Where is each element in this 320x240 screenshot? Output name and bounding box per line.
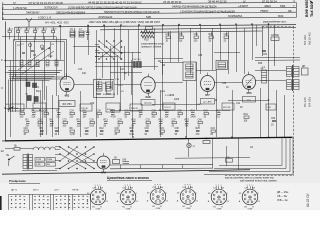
pilot lamp: [187, 143, 191, 147]
svg-text:ДВ Тн: ДВ Тн: [11, 189, 18, 191]
svg-text:громкости. объёмн.: громкости. объёмн.: [141, 47, 162, 49]
parts table grid: [2, 2, 296, 4]
svg-text:R25: R25: [196, 128, 201, 130]
svg-text:С13: С13: [78, 69, 83, 71]
detector filter: [216, 61, 228, 70]
tube V1 label box: [59, 101, 75, 107]
power transformer TR2: [287, 67, 292, 77]
pair wire ticks: [120, 164, 122, 168]
return wires to output stage: [219, 138, 282, 165]
IF section wiring: [96, 48, 98, 98]
svg-text:6ОИ62И64: 6ОИ62И64: [228, 14, 243, 18]
svg-text:С14 С15: С14 С15: [132, 59, 141, 61]
svg-text:R10: R10: [144, 39, 149, 42]
svg-text:44 45 28 22 26 30 35 40 42 47: 44 45 28 22 26 30 35 40 42 47 51 54 58 6…: [88, 1, 142, 5]
wire mains L: [5, 148, 14, 150]
trimmer box: [146, 27, 153, 30]
resistor R9: [141, 31, 154, 34]
svg-text:34И35И37: 34И35И37: [26, 11, 40, 15]
svg-text:С35: С35: [152, 110, 157, 112]
svg-text:С45: С45: [122, 159, 127, 161]
svg-text:6К3: 6К3: [65, 93, 70, 97]
capacitor C10: [86, 32, 90, 34]
resistor R10: [141, 35, 154, 38]
RF choke pair: [70, 31, 75, 37]
svg-text:1W 50К: 1W 50К: [271, 35, 280, 37]
wire V5 grid: [80, 162, 97, 164]
svg-text:4ОЛ: 4ОЛ: [204, 138, 209, 140]
svg-text:R21: R21: [165, 110, 170, 112]
wire lamp drop: [188, 138, 190, 143]
svg-text:125ИЗ2Н139Щ46ИЗ5ЗЫ67Н174Ы81И18: 125ИЗ2Н139Щ46ИЗ5ЗЫ67Н174Ы81И188: [180, 10, 235, 14]
ground bus: [5, 137, 293, 141]
capacitor C52: [272, 120, 276, 122]
svg-text:R20: R20: [160, 128, 165, 130]
component row B (R/C cluster): [26, 121, 30, 123]
svg-text:5/4 292: 5/4 292: [308, 97, 312, 107]
svg-text:ДВ — 25м: ДВ — 25м: [277, 191, 289, 194]
svg-text:4,5 W 16 19 24 25 27 28 2Б: 4,5 W 16 19 24 25 27 28 2Б: [28, 1, 63, 5]
svg-text:С32: С32: [222, 83, 227, 85]
svg-text:С33: С33: [146, 119, 151, 121]
rail AVC: [100, 27, 296, 29]
svg-text:С41: С41: [236, 103, 241, 105]
band switch wafer S2: [59, 146, 61, 148]
tube V4 label box: [243, 97, 256, 103]
return wires below coil box: [8, 70, 62, 72]
coupling parts row: [166, 36, 171, 38]
svg-text:С23: С23: [55, 128, 60, 130]
svg-text:+43И47: +43И47: [238, 4, 248, 8]
fuse: [14, 148, 20, 151]
tube V5 cathode resistor: [113, 160, 120, 164]
tube V2 label box: [141, 100, 155, 106]
svg-text:6П3: 6П3: [247, 91, 252, 95]
socket pinout 6К3 #1: [90, 189, 106, 205]
tube V3 6G7: [201, 76, 215, 92]
svg-text:2О36 68ЕЯ1ОЗП31З118Щ123ЩЗ1Щ48Щ: 2О36 68ЕЯ1ОЗП31З118Щ123ЩЗ1Щ48Щ57Щ62Щ68: [68, 5, 137, 9]
resistor R26: [203, 140, 210, 143]
svg-text:75Я67: 75Я67: [260, 9, 269, 13]
capacitor C54: [226, 159, 233, 163]
svg-text:52Б: 52Б: [146, 15, 151, 19]
wire right 2: [262, 26, 264, 56]
wire V5 plate: [109, 162, 111, 164]
svg-text:С51: С51: [263, 54, 268, 56]
svg-text:6И7 8: 6И7 8: [34, 108, 40, 110]
svg-text:С17: С17: [120, 69, 125, 71]
coil feed line: [2, 36, 56, 38]
svg-text:R28: R28: [258, 63, 263, 65]
svg-text:33К: 33К: [50, 126, 55, 128]
tube V3 label box: [201, 99, 215, 105]
svg-text:51К: 51К: [32, 117, 37, 119]
svg-text:С52: С52: [271, 118, 276, 120]
IF can 1: [94, 80, 115, 98]
svg-text:38 40 44 52 56: 38 40 44 52 56: [208, 0, 227, 4]
vertical feed wires: [60, 25, 62, 60]
svg-text:ДР: ДР: [302, 65, 306, 68]
antenna: [26, 18, 32, 27]
socket pinout 5Ц4 #6: [242, 189, 258, 205]
svg-text:С22 4О: С22 4О: [81, 108, 89, 110]
filter choke coil: [33, 147, 39, 150]
svg-text:4ОИ41Н43: 4ОИ41Н43: [98, 15, 113, 19]
svg-text:С39: С39: [178, 110, 183, 112]
svg-text:1,25О27Ш: 1,25О27Ш: [13, 6, 27, 10]
svg-text:С26: С26: [90, 119, 95, 121]
svg-text:ТЬК 5/2О: ТЬК 5/2О: [310, 1, 314, 17]
svg-text:470К: 470К: [111, 117, 117, 119]
svg-text:3ОПЗО1Я: 3ОПЗО1Я: [44, 6, 57, 10]
svg-text:51К: 51К: [36, 91, 41, 93]
socket pinout 6А8 #2: [120, 189, 136, 205]
svg-text:8О4: 8О4: [278, 14, 284, 18]
svg-text:L5С5: L5С5: [42, 28, 48, 30]
tube V2 6A8: [141, 77, 155, 93]
chassis dashed border top: [262, 26, 294, 28]
svg-text:С48: С48: [224, 34, 229, 36]
svg-text:УКВ— 4м: УКВ— 4м: [277, 199, 288, 202]
volume potentiometer: [8, 107, 14, 111]
svg-text:С25: С25: [198, 55, 203, 57]
svg-text:5/4 292: 5/4 292: [303, 35, 307, 45]
tube V1 6K3: [60, 76, 74, 92]
svg-text:R23: R23: [185, 119, 190, 121]
keyboard contact table: [8, 194, 10, 210]
corner registration tick: [310, 0, 314, 3]
svg-text:5,6К: 5,6К: [130, 134, 135, 136]
svg-text:ОЖЕ: ОЖЕ: [96, 208, 101, 210]
svg-text:12: 12: [1, 149, 5, 153]
bottom-left corner mark: [0, 196, 2, 210]
svg-text:6К3 УВЧ: 6К3 УВЧ: [62, 103, 72, 106]
svg-text:-ЧМ2 ЧМ1 МВ2 СВ1 ДВ пр (УКВ-ЧМ: -ЧМ2 ЧМ1 МВ2 СВ1 ДВ пр (УКВ-ЧМ1. ЧМ2) НВ…: [88, 20, 161, 24]
svg-text:С19: С19: [24, 128, 29, 130]
svg-text:сопротивление регул.: сопротивление регул.: [141, 44, 165, 46]
chassis dashed border right: [293, 26, 295, 175]
svg-text:26 30 28 29 31: 26 30 28 29 31: [163, 0, 182, 4]
svg-text:100К: 100К: [174, 99, 180, 101]
tone cap C45: [123, 161, 130, 163]
svg-text:6Х6 дет: 6Х6 дет: [107, 109, 115, 111]
rail heater: [140, 31, 262, 32]
svg-text:68К: 68К: [40, 134, 45, 136]
speaker field coil: [302, 68, 309, 75]
wire B+ right: [268, 25, 270, 137]
svg-text:С3О: С3О: [197, 104, 202, 106]
svg-text:87 82 58 54: 87 82 58 54: [262, 0, 277, 3]
socket pinout 6К3 #3: [150, 189, 166, 205]
svg-text:R27: R27: [217, 110, 222, 112]
svg-text:6Г7: 6Г7: [205, 93, 210, 97]
extra wires mid-left: [42, 80, 44, 135]
svg-text:6А8: 6А8: [146, 95, 151, 99]
svg-text:1М: 1М: [162, 65, 165, 67]
svg-text:ОЖЕ: ОЖЕ: [248, 208, 253, 210]
svg-text:91К: 91К: [100, 134, 105, 136]
svg-text:R18: R18: [170, 95, 175, 97]
resistor R30: [271, 37, 279, 40]
svg-text:С20: С20: [90, 103, 95, 105]
svg-text:С18: С18: [38, 119, 43, 121]
filter choke L9: [262, 70, 267, 83]
tube V5 6P6 output: [97, 156, 110, 169]
svg-text:дет. АРУ: дет. АРУ: [203, 101, 212, 104]
svg-text:С31: С31: [125, 110, 130, 112]
power transformer TR1 taps: [35, 158, 45, 162]
component row C (R/C cluster): [24, 130, 29, 132]
svg-text:6,3В: 6,3В: [36, 164, 41, 166]
left border wire: [5, 22, 7, 142]
svg-text:47К: 47К: [196, 134, 201, 136]
output pair wire upper: [110, 163, 213, 166]
svg-text:R24: R24: [191, 110, 196, 112]
horizontal link wires: [5, 60, 64, 62]
svg-text:6А 22 ОУ: 6А 22 ОУ: [306, 192, 310, 207]
svg-text:С44: С44: [166, 34, 171, 36]
output pair wire lower: [110, 167, 213, 170]
svg-text:6Ы10 4/2: 6Ы10 4/2: [308, 32, 312, 45]
wire right 3: [274, 25, 276, 66]
svg-text:С24: С24: [70, 110, 75, 112]
paper lighter bottom strip: [0, 183, 320, 210]
svg-text:220В: 220В: [47, 159, 53, 161]
svg-text:28ЕЗ1И45И52Н58И64: 28ЕЗ1И45И52Н58И64: [56, 10, 85, 14]
svg-text:С28: С28: [97, 110, 102, 112]
socket pinout 6П6 #5: [211, 189, 227, 205]
svg-text:С30: С30: [115, 128, 120, 130]
svg-text:С46: С46: [194, 34, 199, 36]
svg-text:1,2М: 1,2М: [70, 134, 75, 136]
svg-text:С31 15: С31 15: [164, 107, 172, 109]
svg-text:ОЖЕ: ОЖЕ: [156, 208, 161, 210]
svg-text:С37: С37: [172, 119, 177, 121]
svg-text:0,05: 0,05: [90, 126, 95, 128]
svg-text:С42: С42: [204, 110, 209, 112]
svg-text:НЕТВ: НЕТВ: [73, 189, 79, 191]
svg-text:Л2 25А: Л2 25А: [11, 107, 18, 110]
bottom frame wire: [2, 170, 250, 175]
svg-text:R19: R19: [159, 119, 164, 121]
svg-text:127В: 127В: [36, 159, 42, 161]
tube V4 6P3: [242, 75, 255, 90]
svg-text:L2С2: L2С2: [16, 28, 22, 30]
svg-text:преобр.: преобр.: [144, 103, 152, 105]
svg-text:радиоприёмная часть: радиоприёмная часть: [263, 22, 287, 24]
svg-text:75К: 75К: [185, 126, 190, 128]
svg-text:L6С6: L6С6: [51, 28, 57, 30]
svg-text:R16: R16: [132, 119, 137, 121]
stage label boxes: [10, 104, 24, 111]
svg-text:56И63И7ОИ77Н84И91И99Н1О4И111Н1: 56И63И7ОИ77Н84И91И99Н1О4И111Н118: [104, 10, 160, 14]
resistor R34: [244, 116, 249, 118]
svg-text:Цоколёвка ламп и кнопок: Цоколёвка ламп и кнопок: [107, 176, 149, 180]
mains switch: [8, 159, 10, 161]
junction dots: [59, 25, 61, 27]
band switch wafer S1: [98, 40, 100, 42]
capacitor C51: [262, 50, 266, 52]
feedback wire: [175, 157, 250, 160]
svg-text:R13: R13: [104, 119, 109, 121]
svg-text:РА 346: РА 346: [303, 97, 307, 107]
svg-text:С40: С40: [198, 119, 203, 121]
transformer base line: [22, 170, 57, 172]
rail +250V: [15, 25, 296, 28]
svg-text:ОЖЕ: ОЖЕ: [186, 208, 191, 210]
svg-text:R12: R12: [100, 128, 105, 130]
svg-text:44ЕЗ: 44ЕЗ: [264, 4, 271, 8]
svg-text:L3С3: L3С3: [25, 28, 31, 30]
svg-text:R17: R17: [139, 110, 144, 112]
svg-text:1О5О 1. 8: 1О5О 1. 8: [38, 16, 51, 20]
svg-text:С38: С38: [175, 128, 180, 130]
svg-text:R34: R34: [244, 114, 249, 116]
ground bus stub: [2, 140, 5, 142]
svg-text:1М: 1М: [83, 117, 86, 119]
IF can 2: [183, 62, 196, 81]
svg-text:щий ножевой на всех инд. приём: щий ножевой на всех инд. приёмн.: [240, 180, 277, 183]
svg-text:С27: С27: [85, 128, 90, 130]
svg-text:вид на цоколёвку ламп со сторо: вид на цоколёвку ламп со стороны ножек п…: [225, 177, 275, 179]
tuning coil box: [14, 40, 67, 80]
input coil filters row: [8, 30, 11, 32]
svg-text:ОЖЕ: ОЖЕ: [126, 208, 131, 210]
svg-text:IV: IV: [13, 1, 16, 5]
svg-text:R15: R15: [130, 128, 135, 130]
socket pinout 6Г7 #4: [180, 189, 196, 205]
svg-text:L4С4: L4С4: [33, 28, 39, 30]
svg-text:ВЭФ М557: ВЭФ М557: [305, 0, 309, 17]
power transformer TR1 primary: [23, 155, 27, 169]
svg-text:СВ — 8м: СВ — 8м: [277, 195, 287, 198]
svg-text:R16 2К: R16 2К: [131, 108, 139, 110]
svg-text:54Я: 54Я: [280, 4, 285, 8]
svg-text:С34: С34: [145, 128, 150, 130]
svg-text:R22 1М: R22 1М: [223, 107, 231, 109]
svg-text:L1С1: L1С1: [8, 28, 14, 30]
svg-text:IV: IV: [243, 0, 246, 3]
svg-text:10К: 10К: [165, 117, 170, 119]
svg-text:240К: 240К: [191, 117, 197, 119]
svg-text:6Б: 6Б: [288, 9, 292, 13]
svg-text:НЧ -4О1. 4О2. 4О3: НЧ -4О1. 4О2. 4О3: [45, 21, 69, 25]
wire right bottom drop: [212, 138, 214, 168]
svg-text:С43: С43: [211, 128, 216, 130]
svg-text:54И61Н72Н84Н99И1О4Н117Б124: 54И61Н72Н84Н99И1О4Н117Б124: [172, 5, 217, 9]
svg-text:6В Тн: 6В Тн: [33, 189, 40, 191]
switch contact stacks: [134, 62, 136, 68]
chassis dashed border bottom: [225, 175, 294, 177]
svg-text:ОЖЕ: ОЖЕ: [217, 208, 222, 210]
component row A (R/C cluster): [20, 113, 25, 115]
svg-text:Przełączanie: Przełączanie: [9, 179, 26, 183]
svg-text:5О: 5О: [121, 91, 124, 93]
svg-text:С22: С22: [63, 119, 68, 121]
svg-text:С16: С16: [20, 110, 25, 112]
svg-text:51К: 51К: [179, 41, 184, 43]
svg-text:10К: 10К: [244, 121, 249, 123]
svg-text:С29: С29: [118, 119, 123, 121]
wire speaker top: [255, 56, 300, 58]
V3 coupling wires: [160, 62, 183, 64]
vertical bus wires: [20, 37, 22, 113]
svg-text:ЦТУ: ЦТУ: [55, 189, 60, 191]
svg-text:R31: R31: [179, 34, 184, 36]
